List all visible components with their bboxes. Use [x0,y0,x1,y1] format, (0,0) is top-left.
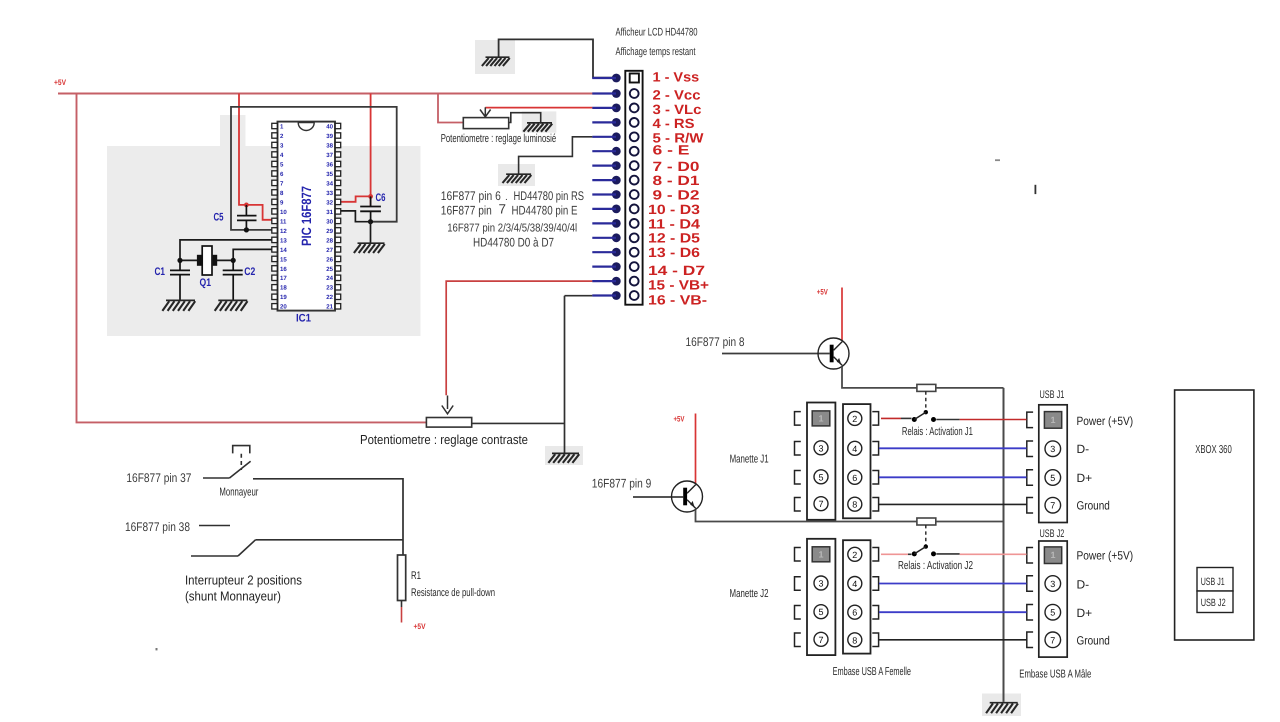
wire relay K1 coil to ground line [936,387,1004,389]
svg-text:D+: D+ [1077,471,1093,485]
switch Interrupteur 2 positions [191,540,256,556]
wire LCD pin16 VB- down to ground [564,296,566,453]
wire LCD pin5 R/W to ground [519,137,593,174]
wire Manette J1 pin8 to USB J1 pin7 (ground) [879,503,1027,505]
svg-text:19: 19 [280,294,287,301]
svg-text:13: 13 [280,237,287,244]
svg-text:26: 26 [326,256,333,263]
svg-text:R1: R1 [411,570,421,582]
svg-text:6 - E: 6 - E [653,143,690,158]
capacitor C2 [223,260,243,300]
resistor R1 [398,555,406,601]
svg-text:7: 7 [818,635,823,645]
svg-text:Power (+5V): Power (+5V) [1077,549,1134,563]
wire crystal left [180,259,197,261]
svg-text:3: 3 [818,443,823,453]
svg-text:9 - D2: 9 - D2 [653,187,700,202]
shaded patch (ground contrast) [545,446,583,465]
ground (LCD R/W) [503,174,532,183]
svg-text:21: 21 [326,304,333,311]
svg-text:USB J1: USB J1 [1201,576,1225,588]
potentiometer wiper arrow (luminosity) [480,107,491,117]
wire ground bus vertical [1003,388,1005,702]
svg-text:30: 30 [326,218,333,225]
wire relay K2 coil to ground line [936,521,1004,523]
svg-text:35: 35 [326,171,333,178]
svg-text:8: 8 [852,635,857,645]
wire relay K2 right contact [936,553,959,555]
connector Manette J1 left column (pins 1,3,5,7) [795,403,836,520]
svg-text:33: 33 [326,190,333,197]
ground (below C2) [215,300,248,311]
shaded patch (ground LCD Vss) [475,40,515,74]
wire R1 to +5V [401,607,403,623]
svg-text:16F877 pin: 16F877 pin [441,204,492,218]
svg-text:7 - D0: 7 - D0 [653,159,700,174]
svg-text:1: 1 [818,549,823,559]
wire +5V to contrast potentiometer [77,94,427,423]
svg-text:37: 37 [326,152,333,159]
svg-text:1: 1 [1050,550,1055,560]
svg-text:13 - D6: 13 - D6 [648,245,701,260]
LCD pin name labels (red) [648,69,709,307]
svg-text:+5V: +5V [54,78,67,87]
svg-text:Afficheur LCD HD44780: Afficheur LCD HD44780 [616,27,698,39]
svg-text:14: 14 [280,247,287,254]
svg-text:D-: D- [1077,577,1090,591]
svg-text:2: 2 [852,414,857,424]
potentiometer: reglage luminosite [463,118,508,129]
wire Manette J2 pin4 to USB J2 pin3 (D-) [879,583,1027,585]
wire R1 bottom [401,601,403,608]
svg-text:7: 7 [1050,635,1055,645]
switch Monnayeur (coin acceptor contact) [230,446,251,478]
svg-text:Resistance de pull-down: Resistance de pull-down [411,587,495,599]
svg-text:1: 1 [818,413,823,423]
IC IC1: PIC 16F877 body [278,122,336,311]
wire +5V to C6 [370,94,372,206]
svg-text:+5V: +5V [414,622,427,631]
wire Monnayeur to R1 [253,479,403,555]
svg-text:16F877 pin 2/3/4/5/38/39/40/4l: 16F877 pin 2/3/4/5/38/39/40/4l [447,222,577,234]
wire 16F877 pin38 stub [199,525,230,527]
wire Interrupteur to R1 node [256,539,404,541]
wire +5V to C5 / PIC pin 11 [239,94,272,220]
svg-text:Embase USB A Mâle: Embase USB A Mâle [1019,668,1091,680]
wire PIC pin12 loop to C6 bottom [231,107,397,230]
svg-text:17: 17 [280,275,287,282]
svg-text:(shunt Monnayeur): (shunt Monnayeur) [185,588,281,603]
connector Manette J1 right column (pins 2,4,6,8) [843,404,879,518]
wire PIC pin14 to crystal [233,249,271,260]
connector USB J2 (Embase USB A male) [1027,541,1067,657]
svg-text:Manette J2: Manette J2 [730,588,769,600]
svg-text:39: 39 [326,133,333,140]
svg-text:6: 6 [852,608,857,618]
svg-text:USB J2: USB J2 [1040,528,1065,540]
wire LCD pin15 VB+ to contrast wiper [446,281,592,395]
XBOX 360 box [1175,390,1254,640]
wire 16F877 pin9 to transistor base [633,496,683,498]
svg-text:Relais : Activation J1: Relais : Activation J1 [902,426,973,438]
wire C6 to PIC pin 32 [341,196,371,201]
wire Manette J1 pin6 to USB J1 pin5 (D+) [879,476,1027,478]
svg-text:10 - D3: 10 - D3 [648,202,701,217]
svg-text:27: 27 [326,247,333,254]
svg-text:1: 1 [1050,415,1055,425]
wire LCD pin16 stub [565,295,593,297]
svg-text:PIC 16F877: PIC 16F877 [299,186,314,246]
ground (below C6) [354,243,385,253]
svg-text:3: 3 [1050,444,1055,454]
wire LCD pin1 Vss to ground [499,39,612,77]
svg-text:29: 29 [326,228,333,235]
svg-text:XBOX 360: XBOX 360 [1195,444,1232,456]
svg-text:USB J1: USB J1 [1040,389,1065,401]
svg-text:28: 28 [326,237,333,244]
svg-text:11: 11 [280,218,287,225]
relay switch (K1 Activation J1) [912,391,936,422]
svg-text:7: 7 [1050,501,1055,511]
svg-text:23: 23 [326,285,333,292]
svg-text:12: 12 [280,228,287,235]
ground (main bottom) [986,703,1018,714]
svg-text:25: 25 [326,266,333,273]
connector Manette J2 left column (pins 1,3,5,7) [795,539,836,655]
transistor Q (16F877 pin 8 driver) [818,338,849,369]
LCD wire junction dots [612,74,621,300]
wire +5V to luminosity potentiometer [438,94,463,123]
wire Manette J1 pin2 to relay K1 (power) [881,417,901,419]
node (crystal right junction) [231,258,236,263]
svg-text:14 - D7: 14 - D7 [648,263,705,278]
svg-text:40: 40 [326,123,333,130]
potentiometer: reglage contraste [426,418,471,428]
svg-text:16F877 pin 37: 16F877 pin 37 [126,471,191,485]
svg-text:HD44780 D0 à D7: HD44780 D0 à D7 [473,235,554,249]
svg-text:12 - D5: 12 - D5 [648,231,701,246]
svg-text:D+: D+ [1077,606,1093,620]
svg-text:5: 5 [818,472,823,482]
svg-text:18: 18 [280,285,287,292]
wire 16F877 pin8 to transistor base [722,353,830,355]
svg-text:+5V: +5V [674,415,685,424]
wire contrast pot to ground line [472,422,565,424]
shaded region (PIC area panel) [107,146,421,336]
capacitor C1 [170,260,190,300]
node (junction dot C6 bottom) [368,219,373,224]
svg-text:6: 6 [852,473,857,483]
node (crystal left junction) [177,258,182,263]
svg-text:22: 22 [326,294,333,301]
svg-text:16: 16 [280,266,287,273]
wire +5V to transistor 2 collector [695,414,697,484]
shaded region (small top patch) [220,115,246,147]
svg-text:Monnayeur: Monnayeur [219,486,258,498]
wire C6 to ground [370,222,372,243]
svg-text:Potentiometre : reglage lumino: Potentiometre : reglage luminosié [441,133,557,145]
relay coil (K1 Activation J1) [917,384,936,391]
svg-text:Potentiometre : reglage contra: Potentiometre : reglage contraste [360,432,528,447]
svg-text:36: 36 [326,161,333,168]
wire +5V to transistor collector [841,288,843,341]
svg-text:Manette J1: Manette J1 [730,453,769,465]
svg-text:Affichage temps restant: Affichage temps restant [616,46,696,58]
LCD pin circles 2-16 [630,89,639,300]
+5V rail wire [58,93,612,95]
svg-text:7: 7 [499,201,507,216]
IC1 left pin squares (pins 1-20) [272,123,278,309]
wire to relay K2 left contact [908,553,912,555]
svg-text:15 - VB+: 15 - VB+ [648,277,709,292]
svg-text:16 - VB-: 16 - VB- [648,293,707,308]
XBOX USB J1 port box [1197,568,1233,592]
stray mark (dash) [995,159,1000,161]
svg-text:Interrupteur 2 positions: Interrupteur 2 positions [185,572,302,587]
svg-text:C1: C1 [155,266,166,278]
svg-text:4 - RS: 4 - RS [653,116,695,131]
wire transistor 2 emitter to relay K2 coil [696,510,917,522]
svg-text:16F877 pin 9: 16F877 pin 9 [592,476,652,490]
svg-text:Relais : Activation J2: Relais : Activation J2 [898,560,973,572]
svg-text:16F877 pin 8: 16F877 pin 8 [686,335,745,349]
transistor Q (16F877 pin 9 driver) [672,481,703,512]
crystal Q1 [197,246,217,275]
LCD pin 1 square pad [630,74,639,83]
svg-text:3: 3 [818,579,823,589]
IC1 right pin squares (pins 21-40) [335,123,341,309]
wire relay K1 right contact [936,419,959,421]
svg-text:USB J2: USB J2 [1201,597,1226,609]
wire Manette J2 pin6 to USB J2 pin5 (D+) [879,611,1027,613]
potentiometer wiper arrow (contrast) [442,396,453,414]
IC1 right pin numbers 40-21 [326,123,333,310]
node (junction dot C5 top) [244,203,249,208]
svg-text:D-: D- [1077,442,1090,456]
svg-text:32: 32 [326,199,333,206]
wire crystal right [217,259,234,261]
stray mark (dot) [156,648,158,650]
LCD header connector body [625,71,642,305]
svg-text:Ground: Ground [1077,634,1110,648]
svg-text:Power (+5V): Power (+5V) [1077,414,1134,428]
ground (contrast) [548,453,579,463]
svg-text:11 - D4: 11 - D4 [648,216,701,231]
svg-text:16F877 pin 6: 16F877 pin 6 [441,189,501,203]
wire luminosity wiper to LCD pin3 VLc [485,107,592,109]
relay switch (K2 Activation J2) [912,525,936,556]
node (junction dot C5 bottom) [244,227,249,232]
ground (luminosity pot) [523,123,552,132]
wire Manette J1 pin4 to USB J1 pin3 (D-) [879,447,1027,449]
IC1 left pin numbers 1-20 [280,123,287,310]
svg-text:16F877 pin 38: 16F877 pin 38 [125,520,190,534]
XBOX USB J2 port box [1197,591,1233,613]
svg-text:HD44780 pin RS: HD44780 pin RS [514,189,585,203]
svg-text:3 - VLc: 3 - VLc [653,102,703,117]
svg-text:4: 4 [852,444,857,454]
relay coil (K2 Activation J2) [917,518,936,525]
svg-text:7: 7 [818,499,823,509]
node (junction dot C6 top) [368,194,373,199]
svg-text:20: 20 [280,304,287,311]
svg-text:34: 34 [326,180,333,187]
wire Manette J2 pin8 to USB J2 pin7 (ground) [879,639,1027,641]
svg-text:Embase USB A Femelle: Embase USB A Femelle [833,666,911,678]
shaded patch (ground LCD R/W) [498,164,535,186]
connector USB J1 (Embase USB A male) [1027,405,1067,523]
wire luminosity pot to ground [509,113,541,123]
svg-text:4: 4 [852,579,857,589]
svg-text:10: 10 [280,209,287,216]
LCD navy stub wires [592,78,616,296]
svg-text:15: 15 [280,256,287,263]
svg-text:5: 5 [818,607,823,617]
svg-text:Q1: Q1 [200,277,212,289]
svg-text:24: 24 [326,275,333,282]
wire 16F877 pin37 to switch [203,477,230,479]
wire PIC pin31 to C6 bottom [341,211,371,222]
svg-text:8: 8 [852,500,857,510]
ground (below C1) [162,300,195,311]
svg-text:C2: C2 [244,266,255,278]
svg-text:IC1: IC1 [296,313,311,325]
capacitor C6 [360,196,381,221]
svg-text:8 - D1: 8 - D1 [653,173,701,188]
wire relay K1 to USB J1 pin1 (power) [960,419,1027,421]
capacitor C5 [237,205,257,230]
svg-text:+5V: +5V [817,288,828,297]
svg-text:1 - Vss: 1 - Vss [653,69,700,84]
wire to relay K1 left contact [901,417,912,419]
svg-text:C5: C5 [214,212,224,224]
svg-text:5: 5 [1050,608,1055,618]
svg-text:HD44780 pin E: HD44780 pin E [512,204,578,218]
wire transistor emitter to relay K1 coil [842,367,917,388]
svg-text:2: 2 [852,550,857,560]
wire Manette J2 pin2 to relay K2 (power) [881,553,908,555]
stray mark (tick) [1035,185,1037,194]
wire relay K2 to USB J2 pin1 (power) [960,553,1027,555]
svg-text:31: 31 [326,209,333,216]
svg-text:5: 5 [1050,473,1055,483]
ground (LCD Vss) [482,57,510,66]
shaded patch (ground main bottom) [982,694,1021,717]
svg-text:3: 3 [1050,579,1055,589]
svg-text:38: 38 [326,142,333,149]
svg-text:C6: C6 [376,192,386,204]
wire PIC pin13 to crystal [180,240,272,261]
svg-text:Ground: Ground [1077,499,1110,513]
connector Manette J2 right column (pins 2,4,6,8) [843,540,879,653]
shaded patch (ground luminosity pot) [522,111,557,132]
svg-text:2 - Vcc: 2 - Vcc [653,88,702,103]
